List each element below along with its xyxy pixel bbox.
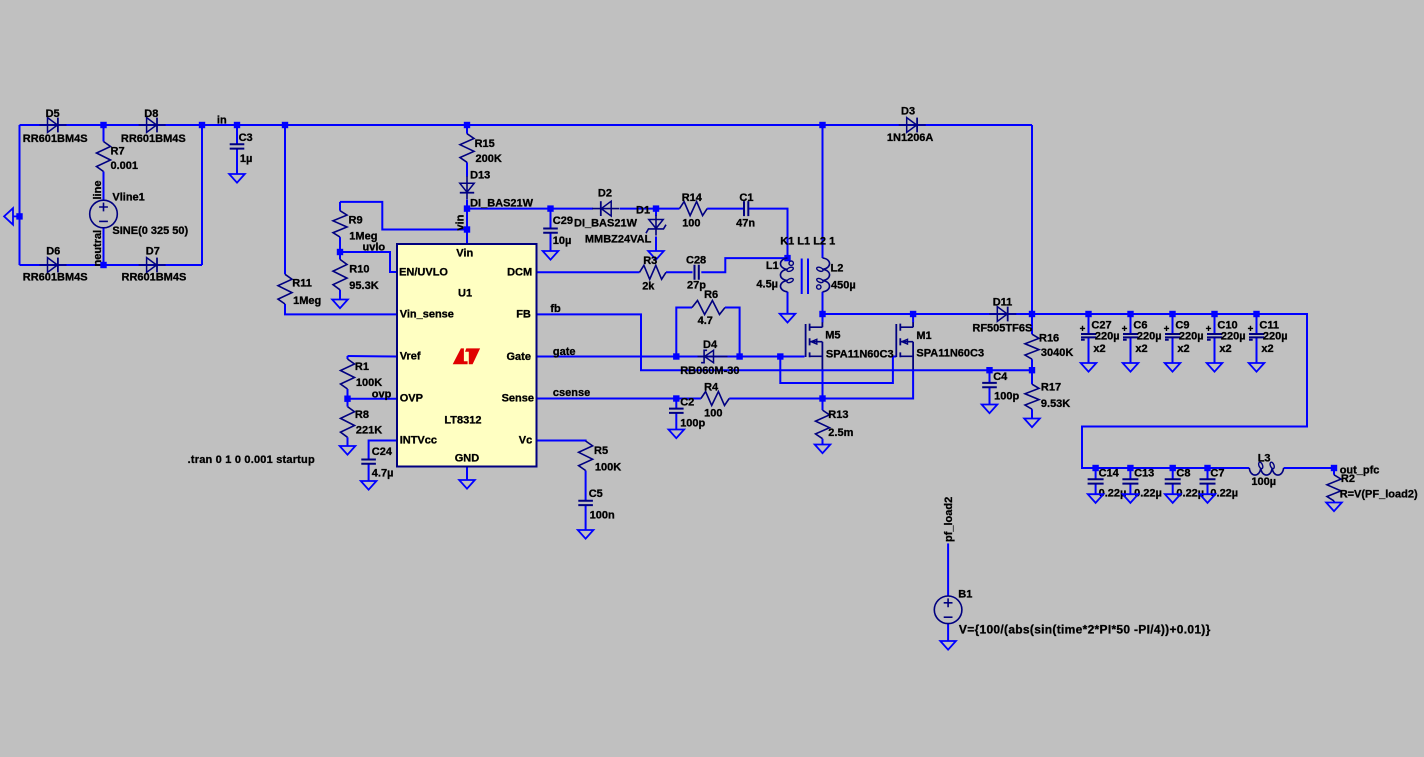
diode D11 <box>989 307 1016 322</box>
capacitor C8 <box>1165 479 1181 483</box>
svg-text:Vin_sense: Vin_sense <box>400 308 454 320</box>
diode D2 <box>592 201 619 216</box>
svg-text:R9: R9 <box>349 215 363 227</box>
junction C29 <box>547 205 553 211</box>
resistor R15 <box>460 134 474 163</box>
wire D13 to Vin pin (vin net) <box>466 200 468 245</box>
capacitor C6 <box>1122 326 1138 340</box>
svg-text:SPA11N60C3: SPA11N60C3 <box>826 349 894 361</box>
svg-text:R11: R11 <box>292 277 312 289</box>
junction L2 bottom <box>819 311 825 317</box>
ground C13 <box>1123 494 1139 503</box>
svg-text:OVP: OVP <box>400 393 423 405</box>
junction ovp <box>344 396 350 402</box>
svg-text:ovp: ovp <box>372 388 392 400</box>
wire R10 to ground <box>339 290 341 300</box>
svg-text:9.53K: 9.53K <box>1041 398 1070 410</box>
inductor L2 <box>816 258 829 292</box>
transistor M5 <box>806 322 823 369</box>
svg-text:4.7: 4.7 <box>698 315 713 327</box>
svg-text:Vc: Vc <box>519 435 532 447</box>
svg-text:221K: 221K <box>356 425 382 437</box>
junction uvlo <box>337 249 343 255</box>
wire output rail to cap at x1172 <box>1172 314 1174 333</box>
svg-text:220µ: 220µ <box>1095 331 1120 343</box>
svg-text:R7: R7 <box>111 145 125 157</box>
diode D8 <box>139 118 166 133</box>
wire C28 to transformer node <box>701 258 787 272</box>
wire vin net to C29 <box>550 209 552 229</box>
wire Vref pin to R1 <box>348 355 398 358</box>
wire R7 to Vline1 <box>103 172 105 201</box>
wire GND pin to ground <box>466 467 468 481</box>
svg-text:RR601BM4S: RR601BM4S <box>121 133 186 145</box>
diode D6 <box>40 258 67 273</box>
svg-text:220µ: 220µ <box>1137 331 1162 343</box>
svg-text:D4: D4 <box>703 339 718 351</box>
ground C29 <box>543 251 559 260</box>
junction gate link <box>777 353 783 359</box>
svg-text:Sense: Sense <box>502 393 534 405</box>
wire ovp to OVP pin <box>348 398 398 400</box>
capacitor C1 <box>744 201 748 216</box>
svg-text:L2: L2 <box>831 262 844 274</box>
wire gate net to M1 gate <box>780 357 896 384</box>
diode D4 <box>698 350 728 362</box>
wire uvlo to EN/UVLO pin <box>340 252 397 272</box>
junction C7 <box>1204 465 1210 471</box>
svg-text:0.22µ: 0.22µ <box>1099 487 1127 499</box>
svg-text:L3: L3 <box>1258 453 1271 465</box>
svg-text:0.22µ: 0.22µ <box>1176 487 1204 499</box>
wire Vline1 to D6-D7 node <box>103 228 105 265</box>
zener diode D1 <box>646 216 666 236</box>
svg-text:C13: C13 <box>1134 467 1154 479</box>
junction vin-R9 <box>464 226 470 232</box>
svg-text:gate: gate <box>553 346 576 358</box>
svg-text:3040K: 3040K <box>1041 347 1073 359</box>
svg-text:100K: 100K <box>356 377 382 389</box>
junction L1 top <box>784 255 790 261</box>
diode D3 <box>899 118 926 133</box>
svg-text:R14: R14 <box>682 192 703 204</box>
svg-text:2k: 2k <box>642 281 655 293</box>
wire R13 to ground <box>822 439 824 445</box>
inductor L1 <box>780 258 793 292</box>
svg-text:x2: x2 <box>1093 343 1105 355</box>
wire out_pfc to R2 <box>1333 468 1335 475</box>
phase dot L1 <box>789 261 793 265</box>
svg-text:220µ: 220µ <box>1221 331 1246 343</box>
svg-text:100p: 100p <box>680 417 705 429</box>
capacitor C13 <box>1122 479 1138 483</box>
capacitor C5 <box>578 501 593 505</box>
wire cap to ground at x1130 <box>1129 484 1131 494</box>
resistor R2 <box>1327 475 1341 501</box>
svg-text:0.001: 0.001 <box>111 160 139 172</box>
junction bridge out <box>199 122 205 128</box>
svg-text:C11: C11 <box>1259 319 1279 331</box>
wire source node to R13 <box>822 399 824 411</box>
wire M1 source to source node <box>823 370 914 399</box>
inductor L3 <box>1249 462 1283 475</box>
resistor R7 <box>97 142 111 172</box>
svg-text:pf_load2: pf_load2 <box>943 497 955 542</box>
wire fb node to C4 <box>989 370 991 383</box>
wire in node to C3 <box>236 125 238 144</box>
wire filter rail to cap at x1172 <box>1172 468 1174 479</box>
wire output rail to cap at x1130 <box>1130 314 1132 333</box>
svg-text:C4: C4 <box>993 371 1008 383</box>
LT logo <box>453 348 480 364</box>
svg-text:DI_BAS21W: DI_BAS21W <box>574 217 638 229</box>
junction D1 <box>653 205 659 211</box>
junction C10 <box>1211 311 1217 317</box>
svg-text:Vin: Vin <box>456 248 473 260</box>
wire bridge bottom rail <box>20 264 203 266</box>
ground L1 <box>780 314 796 323</box>
svg-text:LT8312: LT8312 <box>444 415 481 427</box>
wire pf_load2 to B1 <box>947 543 949 596</box>
svg-text:R15: R15 <box>475 138 495 150</box>
wire R8 to ground <box>347 437 349 446</box>
svg-text:220µ: 220µ <box>1179 331 1204 343</box>
svg-text:C24: C24 <box>372 446 393 458</box>
svg-text:100K: 100K <box>595 462 621 474</box>
svg-text:R8: R8 <box>355 409 369 421</box>
svg-text:Gate: Gate <box>507 351 531 363</box>
svg-text:M1: M1 <box>916 330 931 342</box>
capacitor C29 <box>543 229 558 233</box>
resistor R10 <box>333 259 347 289</box>
svg-text:47n: 47n <box>736 218 755 230</box>
junction R15 <box>464 122 470 128</box>
svg-text:D2: D2 <box>598 188 612 200</box>
junction C11 <box>1253 311 1259 317</box>
diode D5 <box>40 118 67 133</box>
svg-text:RR601BM4S: RR601BM4S <box>23 271 88 283</box>
svg-text:R10: R10 <box>349 263 369 275</box>
ground C9 <box>1165 363 1181 372</box>
svg-text:R17: R17 <box>1041 381 1061 393</box>
svg-text:0.22µ: 0.22µ <box>1210 487 1238 499</box>
junction C14 <box>1092 465 1098 471</box>
ground C11 <box>1249 363 1265 372</box>
capacitor C11 <box>1248 326 1264 340</box>
svg-text:RF505TF6S: RF505TF6S <box>972 322 1032 334</box>
ground R2 <box>1326 503 1342 512</box>
wire bridge right vertical <box>201 125 203 265</box>
junction out_pfc <box>1331 465 1337 471</box>
svg-text:x2: x2 <box>1177 343 1189 355</box>
svg-text:C9: C9 <box>1175 319 1189 331</box>
svg-text:D6: D6 <box>46 245 60 257</box>
svg-text:B1: B1 <box>958 589 972 601</box>
wire D2 to R14 via D1 node <box>620 208 680 210</box>
svg-text:C8: C8 <box>1176 467 1190 479</box>
junction gate-R6 right <box>736 353 742 359</box>
wire R6 left leg <box>676 308 692 357</box>
svg-text:D1: D1 <box>636 204 650 216</box>
wire output rail to bottom filter rail <box>1032 314 1307 468</box>
svg-text:220µ: 220µ <box>1263 331 1288 343</box>
ground C4 <box>982 405 998 414</box>
svg-text:FB: FB <box>516 308 531 320</box>
wire D1 top lead <box>655 209 657 216</box>
wire R1-R8 ovp node <box>347 389 349 407</box>
svg-text:4.5µ: 4.5µ <box>756 278 778 290</box>
wire cap to ground at x1172 <box>1172 484 1174 494</box>
junction C6 <box>1127 311 1133 317</box>
svg-text:x2: x2 <box>1219 343 1231 355</box>
wire cap to ground at x1214 <box>1214 338 1216 363</box>
svg-text:D3: D3 <box>901 106 915 118</box>
svg-text:RR601BM4S: RR601BM4S <box>122 271 187 283</box>
wire L1 to ground <box>787 292 789 314</box>
svg-text:C5: C5 <box>589 488 603 500</box>
wire C3 to ground <box>236 149 238 174</box>
junction port <box>16 213 22 219</box>
resistor R13 <box>816 410 830 439</box>
diode D13 <box>460 176 474 199</box>
wire output rail to cap at x1256 <box>1256 314 1258 333</box>
svg-text:RR601BM4S: RR601BM4S <box>23 133 88 145</box>
svg-text:RB060M-30: RB060M-30 <box>680 365 739 377</box>
ground C6 <box>1123 363 1139 372</box>
wire R1 top lead <box>347 356 349 359</box>
ground C27 <box>1081 363 1097 372</box>
transformer core <box>802 259 808 295</box>
capacitor C2 <box>669 409 684 413</box>
svg-text:1N1206A: 1N1206A <box>887 132 934 144</box>
wire top rail to L2 <box>822 125 824 258</box>
wire M5 source down <box>822 370 824 399</box>
wire R9-R10 uvlo node <box>339 237 341 259</box>
svg-text:Vline1: Vline1 <box>112 191 144 203</box>
wire D5-D8 node to R7 <box>103 125 105 142</box>
junction C9 <box>1169 311 1175 317</box>
svg-text:R1: R1 <box>355 361 369 373</box>
svg-text:x2: x2 <box>1261 343 1273 355</box>
wire bridge left vertical <box>19 125 21 265</box>
svg-text:D5: D5 <box>46 108 60 120</box>
svg-text:2.5m: 2.5m <box>828 427 853 439</box>
svg-text:csense: csense <box>553 387 590 399</box>
resistor R5 <box>579 441 593 471</box>
wire DCM pin to R3 <box>537 271 640 273</box>
svg-text:GND: GND <box>455 452 480 464</box>
ground C3 <box>229 174 245 183</box>
wire filter rail to cap at x1095 <box>1095 468 1097 479</box>
wire C5 to ground <box>585 505 587 530</box>
wire top rail (in net) <box>20 124 1033 126</box>
svg-text:D7: D7 <box>146 245 160 257</box>
svg-text:95.3K: 95.3K <box>349 280 378 292</box>
op-amp U1 LT8312 body <box>397 244 537 467</box>
wire fb net from FB pin to divider <box>537 314 1032 370</box>
svg-text:SINE(0 325 50): SINE(0 325 50) <box>112 225 188 237</box>
svg-text:100: 100 <box>704 408 722 420</box>
svg-text:200K: 200K <box>476 153 502 165</box>
resistor R9 <box>333 211 347 237</box>
wire cap to ground at x1095 <box>1095 484 1097 494</box>
wire cap to ground at x1172 <box>1172 338 1174 363</box>
wire output to R16 <box>1031 314 1033 334</box>
ground D1 <box>648 251 664 260</box>
wire csense to C2 <box>675 399 677 409</box>
ground R8 <box>340 446 356 455</box>
svg-text:C29: C29 <box>553 215 573 227</box>
wire L2 to drain rail <box>822 292 824 314</box>
wire R11 to Vin_sense pin <box>285 304 397 314</box>
wire C1 down to transformer node <box>748 209 787 259</box>
junction C3 <box>234 122 240 128</box>
capacitor C14 <box>1088 479 1104 483</box>
ground C24 <box>361 481 377 490</box>
svg-text:U1: U1 <box>458 287 472 299</box>
svg-text:C10: C10 <box>1217 319 1237 331</box>
junction C13 <box>1127 465 1133 471</box>
wire R6 right leg <box>725 308 740 357</box>
capacitor C10 <box>1206 326 1222 340</box>
svg-text:C6: C6 <box>1133 319 1147 331</box>
wire right drop to output rail <box>1031 125 1033 314</box>
wire R3 to C28 <box>666 271 693 273</box>
svg-text:R3: R3 <box>643 255 657 267</box>
svg-text:1µ: 1µ <box>240 153 252 165</box>
svg-text:R5: R5 <box>594 445 608 457</box>
resistor R14 <box>680 202 708 216</box>
svg-text:10µ: 10µ <box>553 235 572 247</box>
wire output rail to cap at x1088 <box>1088 314 1090 333</box>
svg-text:C27: C27 <box>1091 319 1111 331</box>
svg-text:100µ: 100µ <box>1251 476 1276 488</box>
svg-text:C14: C14 <box>1099 467 1120 479</box>
svg-text:4.7µ: 4.7µ <box>372 468 394 480</box>
svg-text:in: in <box>217 115 227 127</box>
svg-text:C7: C7 <box>1210 467 1224 479</box>
svg-text:line: line <box>92 181 104 200</box>
svg-text:R6: R6 <box>704 289 718 301</box>
port flag left input <box>4 208 19 225</box>
svg-text:100p: 100p <box>994 391 1019 403</box>
svg-text:100: 100 <box>682 218 700 230</box>
transistor M1 <box>896 322 913 369</box>
svg-text:R=V(PF_load2): R=V(PF_load2) <box>1340 489 1418 501</box>
wire INTVcc pin to C24 <box>369 441 397 460</box>
ground R17 <box>1024 419 1040 428</box>
voltage source Vline1 <box>90 200 118 228</box>
svg-text:DI_BAS21W: DI_BAS21W <box>470 197 534 209</box>
ground C5 <box>578 530 594 539</box>
wire C4 to ground <box>989 387 991 404</box>
wire C24 to ground <box>368 464 370 481</box>
wire cap to ground at x1088 <box>1088 338 1090 363</box>
resistor R11 <box>278 274 292 304</box>
wire output rail to cap at x1214 <box>1214 314 1216 333</box>
svg-text:fb: fb <box>550 303 561 315</box>
ground C14 <box>1088 494 1104 503</box>
wire C29 to ground <box>550 233 552 251</box>
ground C2 <box>669 430 685 439</box>
svg-text:.tran 0 1 0 0.001 startup: .tran 0 1 0 0.001 startup <box>188 454 315 466</box>
wire filter rail to cap at x1207 <box>1207 468 1209 479</box>
svg-text:INTVcc: INTVcc <box>400 435 437 447</box>
resistor R16 <box>1025 334 1039 359</box>
junction fb divider <box>1029 367 1035 373</box>
wire R2 to ground <box>1333 501 1335 503</box>
wire Sense pin csense net to R4 <box>537 398 701 400</box>
svg-text:EN/UVLO: EN/UVLO <box>399 266 448 278</box>
diode D7 <box>139 258 166 273</box>
junction gate-R6 left <box>673 353 679 359</box>
svg-text:M5: M5 <box>825 329 840 341</box>
resistor R4 <box>701 392 729 406</box>
svg-text:D8: D8 <box>144 108 158 120</box>
junction M1 drain <box>910 311 916 317</box>
wire R15 to D13 <box>466 162 468 176</box>
resistor R17 <box>1025 384 1039 409</box>
svg-text:C2: C2 <box>680 397 694 409</box>
svg-text:L1: L1 <box>766 260 779 272</box>
svg-text:0.22µ: 0.22µ <box>1134 487 1162 499</box>
wire drain to M1 <box>912 314 914 323</box>
capacitor C28 <box>695 265 699 280</box>
ground C8 <box>1165 494 1181 503</box>
wire R9 top lead <box>339 202 341 211</box>
svg-text:R13: R13 <box>828 409 848 421</box>
behavioral source B1 <box>934 596 962 624</box>
resistor R6 <box>692 301 725 315</box>
junction L2 top <box>819 122 825 128</box>
wire in rail to R15 <box>466 125 468 134</box>
svg-text:DCM: DCM <box>507 266 532 278</box>
wire Gate pin to D4 node <box>537 356 676 358</box>
ground C7 <box>1200 494 1216 503</box>
svg-text:450µ: 450µ <box>831 280 856 292</box>
wire R14 to C1 <box>707 208 744 210</box>
capacitor C27 <box>1080 326 1096 340</box>
svg-text:Vref: Vref <box>400 351 421 363</box>
junction C4 <box>986 367 992 373</box>
wire C2 to ground <box>675 413 677 430</box>
wire gate net to M5 gate <box>740 356 805 358</box>
svg-text:R4: R4 <box>704 382 719 394</box>
ground IC GND <box>459 480 475 489</box>
wire cap to ground at x1130 <box>1130 338 1132 363</box>
junction source node <box>819 395 825 401</box>
resistor R1 <box>341 359 355 389</box>
junction R11 <box>282 122 288 128</box>
capacitor C3 <box>230 144 245 148</box>
svg-text:uvlo: uvlo <box>363 242 386 254</box>
ground B1 <box>940 641 956 650</box>
svg-text:R2: R2 <box>1341 473 1355 485</box>
wire filter rail to cap at x1130 <box>1129 468 1131 479</box>
svg-text:MMBZ24VAL: MMBZ24VAL <box>585 234 652 246</box>
ground C10 <box>1207 363 1223 372</box>
ground R13 <box>815 445 831 454</box>
capacitor C9 <box>1164 326 1180 340</box>
svg-text:neutral: neutral <box>92 230 104 267</box>
junction C8 <box>1170 465 1176 471</box>
wire R16-R17 fb node <box>1031 359 1033 384</box>
wire cap to ground at x1256 <box>1256 338 1258 363</box>
capacitor C7 <box>1200 479 1216 483</box>
svg-text:1Meg: 1Meg <box>293 295 321 307</box>
svg-text:C28: C28 <box>686 255 706 267</box>
wire L3 to out_pfc <box>1284 467 1334 469</box>
